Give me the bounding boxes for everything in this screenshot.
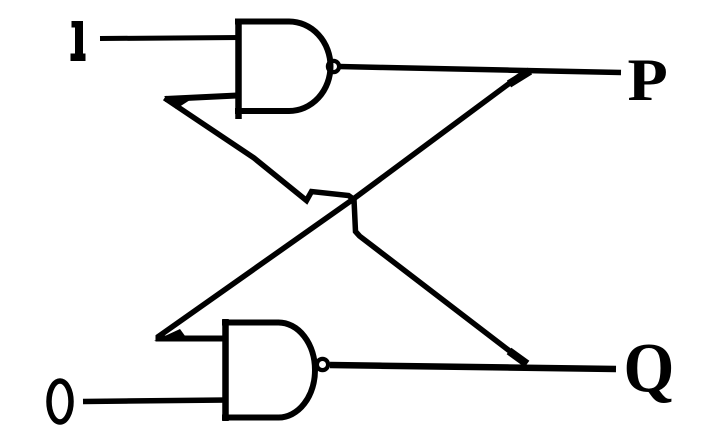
svg-text:P: P <box>628 47 668 114</box>
label 0 (input) <box>49 381 71 422</box>
wire input-0 to U2 pin B <box>83 400 228 402</box>
wire feedback U1 input to Q (diagonal with hop) <box>165 98 525 362</box>
svg-text:Q: Q <box>624 328 675 407</box>
junction wedge node R <box>154 329 188 341</box>
nand U1 body <box>235 22 330 112</box>
label 1 (input) <box>71 21 86 61</box>
junction wedge node S <box>164 96 190 109</box>
nand U1 input bar <box>235 19 242 120</box>
wire U2 output to Q <box>330 365 616 369</box>
junction blob at Q <box>509 351 527 364</box>
wire U1 output to P <box>339 67 621 73</box>
nand U1 bubble <box>328 61 339 72</box>
wire U2 pin A stub <box>156 336 229 342</box>
nand U2 body <box>222 323 315 418</box>
nand U2 bubble <box>317 359 328 370</box>
junction blob at P <box>509 71 530 84</box>
wire input-1 to U1 pin A <box>100 38 241 39</box>
wire U1 pin B stub <box>165 96 237 100</box>
wire feedback P to U2 input (diagonal up-right) <box>157 73 524 338</box>
nand U2 input bar <box>222 319 229 421</box>
